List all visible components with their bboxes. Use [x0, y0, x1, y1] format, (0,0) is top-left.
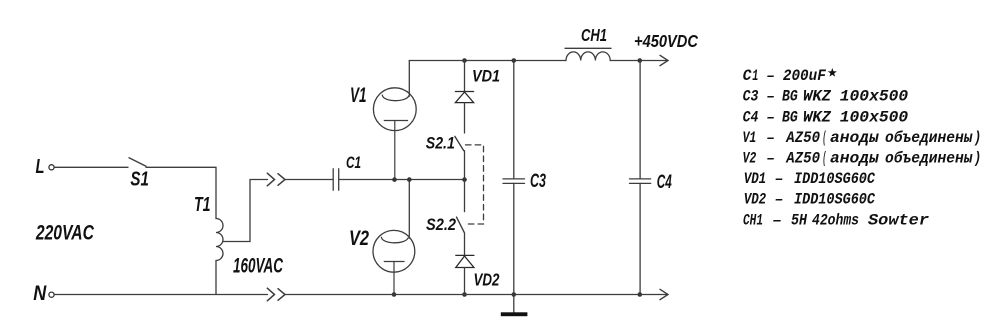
svg-text:–: – [775, 170, 784, 188]
junction C4 top [638, 58, 643, 63]
svg-text:T1: T1 [194, 193, 211, 216]
svg-text:S2.1: S2.1 [426, 133, 455, 152]
svg-text:IDD10SG60C: IDD10SG60C [794, 170, 875, 188]
terminal L [49, 165, 54, 170]
svg-text:–: – [766, 108, 775, 126]
svg-text:160VAC: 160VAC [233, 254, 283, 278]
junction switch pole [462, 177, 467, 182]
wire S1 to T1 corner [146, 167, 216, 218]
bottom rail right [285, 294, 668, 296]
svg-text:CH1: CH1 [743, 211, 763, 229]
wire VD2 to bottom rail [464, 268, 466, 295]
top rail [409, 60, 566, 62]
diode VD1 [455, 92, 473, 103]
svg-text:VD2: VD2 [474, 270, 500, 290]
svg-text:C1: C1 [346, 154, 361, 172]
capacitor C3 [503, 61, 525, 295]
capacitor C1 [333, 169, 339, 190]
svg-text:аноды: аноды [830, 150, 879, 168]
svg-text:–: – [766, 129, 775, 147]
wire T1 tap to 160VAC node [223, 180, 268, 242]
value label CH1 [743, 211, 929, 229]
wire chevrons to C1 [285, 179, 333, 181]
junction VD1 top [462, 58, 467, 63]
svg-text:S2.2: S2.2 [426, 215, 456, 234]
svg-text:–: – [766, 150, 775, 168]
svg-text:аноды: аноды [830, 129, 879, 147]
svg-text:VD1: VD1 [472, 67, 500, 86]
star mark [828, 68, 837, 77]
svg-text:V2: V2 [349, 227, 369, 250]
svg-text:BG: BG [782, 88, 798, 106]
svg-text:объединены: объединены [885, 129, 973, 147]
connector chevron top 1 [267, 173, 274, 186]
svg-text:C4: C4 [743, 108, 759, 126]
svg-text:объединены: объединены [885, 150, 973, 168]
value label VD2 [744, 191, 876, 209]
ground [501, 295, 528, 317]
svg-text:C3: C3 [743, 88, 759, 106]
svg-text:–: – [766, 67, 775, 85]
junction V2 cathode bottom [392, 292, 397, 297]
svg-text:): ) [974, 129, 982, 147]
value label C3 [743, 88, 909, 106]
value label C1 [743, 67, 827, 85]
svg-text:AZ50: AZ50 [785, 150, 820, 168]
svg-text:VD1: VD1 [744, 170, 767, 188]
junction C3 bottom [512, 292, 517, 297]
svg-text:(: ( [823, 129, 827, 147]
svg-text:Sowter: Sowter [868, 211, 929, 229]
junction node V2 anode [407, 177, 412, 182]
svg-text:WKZ: WKZ [803, 88, 831, 106]
svg-text:V1: V1 [350, 84, 367, 107]
junction VD2 bottom [462, 292, 467, 297]
svg-text:V1: V1 [743, 129, 757, 147]
diode VD2 [456, 255, 474, 267]
connector chevron bottom 2 [278, 289, 285, 301]
svg-text:AZ50: AZ50 [785, 129, 820, 147]
tube V1 [373, 88, 416, 180]
svg-text:C3: C3 [530, 171, 546, 192]
svg-text:): ) [974, 150, 982, 168]
bottom rail left [54, 294, 267, 296]
svg-text:VD2: VD2 [744, 191, 767, 209]
svg-text:S1: S1 [130, 169, 149, 191]
svg-text:–: – [772, 211, 782, 229]
junction C3 top [512, 58, 517, 63]
connector chevron bottom 1 [267, 288, 274, 301]
svg-text:IDD10SG60C: IDD10SG60C [794, 191, 875, 209]
svg-text:(: ( [823, 150, 827, 168]
junction C4 bottom [638, 292, 643, 297]
value label V1 [743, 129, 982, 147]
svg-text:42ohms: 42ohms [812, 211, 859, 229]
wire T1 bottom to N rail [215, 261, 217, 295]
svg-text:V2: V2 [743, 150, 757, 168]
svg-text:200uF: 200uF [783, 67, 826, 85]
wire S2.1 to pole [464, 151, 466, 180]
transformer T1 winding [216, 219, 223, 261]
wire S2.2 to VD2 [464, 233, 466, 255]
wire V1 anode to top rail [408, 61, 410, 97]
output arrow bottom [660, 289, 668, 299]
svg-text:100x500: 100x500 [840, 108, 909, 126]
svg-text:C4: C4 [657, 172, 672, 193]
svg-text:N: N [33, 282, 47, 305]
svg-text:100x500: 100x500 [840, 88, 909, 106]
wire top rail to VD1 [464, 61, 466, 92]
wire V2 anode from node [408, 180, 410, 239]
svg-text:CH1: CH1 [581, 25, 607, 45]
svg-text:L: L [36, 156, 45, 178]
wire pole to S2.2 [464, 180, 466, 212]
svg-text:1: 1 [752, 67, 758, 85]
svg-text:5H: 5H [791, 211, 807, 229]
value label VD1 [744, 170, 876, 188]
svg-text:–: – [775, 191, 784, 209]
parts list [743, 67, 982, 229]
svg-text:WKZ: WKZ [803, 108, 831, 126]
svg-text:BG: BG [782, 108, 798, 126]
switch S1 [129, 158, 146, 167]
wire C1 to switch pole [339, 179, 464, 181]
inductor CH1 [565, 48, 611, 60]
switch S2.2 [457, 217, 465, 233]
svg-text:220VAC: 220VAC [35, 221, 94, 245]
value label V2 [743, 150, 982, 168]
connector chevron top 2 [278, 174, 285, 186]
svg-text:–: – [766, 88, 775, 106]
mechanical link S2 dashed [466, 145, 484, 224]
wire L to S1 [54, 166, 128, 168]
capacitor C4 [630, 61, 651, 295]
junction node V1 cathode [392, 177, 397, 182]
terminal N [49, 292, 54, 297]
output arrow top [660, 55, 668, 65]
wire VD1 to S2.1 [464, 103, 466, 133]
switch S2.1 [455, 136, 464, 150]
value label C4 [743, 108, 909, 126]
svg-text:+450VDC: +450VDC [634, 31, 698, 51]
tube V2 [373, 230, 415, 294]
svg-text:C: C [743, 67, 752, 85]
